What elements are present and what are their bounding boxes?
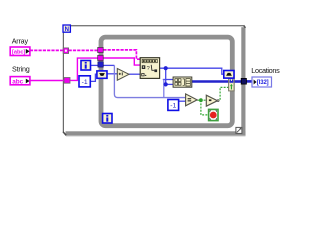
svg-text:?: ?: [147, 66, 150, 72]
svg-text:Locations: Locations: [251, 66, 280, 75]
svg-text:[I32]: [I32]: [257, 80, 269, 86]
svg-text:N: N: [65, 27, 69, 33]
svg-text:String: String: [12, 65, 30, 74]
svg-text:abc: abc: [12, 78, 23, 85]
svg-text:[abc]: [abc]: [12, 50, 26, 56]
svg-text:-1: -1: [170, 103, 176, 110]
svg-text:Array: Array: [12, 36, 29, 45]
svg-text:-1: -1: [82, 79, 88, 86]
